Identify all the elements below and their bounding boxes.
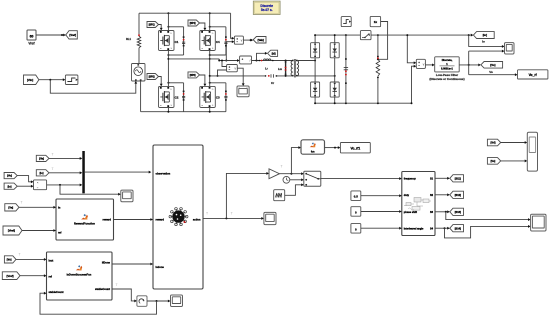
svg-text:Vo_rf: Vo_rf bbox=[529, 73, 538, 77]
svg-text:interleaved angle: interleaved angle bbox=[404, 227, 424, 230]
svg-text:[Va]: [Va] bbox=[8, 205, 13, 209]
svg-text:[S14]: [S14] bbox=[455, 227, 461, 230]
svg-text:fcn: fcn bbox=[311, 150, 315, 153]
svg-text:isdone: isdone bbox=[156, 265, 165, 269]
svg-text:(Discrete or Continuous): (Discrete or Continuous) bbox=[429, 77, 464, 81]
svg-text:[SP2]: [SP2] bbox=[149, 77, 155, 79]
svg-text:C4: C4 bbox=[216, 40, 220, 44]
svg-text:[S11]: [S11] bbox=[455, 177, 461, 180]
svg-text:[Id]: [Id] bbox=[272, 52, 276, 55]
svg-text:[Vo]: [Vo] bbox=[490, 63, 495, 67]
svg-text:[Vref]: [Vref] bbox=[8, 229, 15, 233]
svg-text:action: action bbox=[193, 217, 201, 221]
svg-text:Vref: Vref bbox=[28, 42, 35, 46]
svg-text:isDoneSuccessFcn: isDoneSuccessFcn bbox=[67, 273, 92, 277]
svg-text:IfDone: IfDone bbox=[102, 261, 111, 265]
svg-text:m: m bbox=[201, 105, 203, 107]
svg-text:Discrete,: Discrete, bbox=[442, 59, 453, 62]
svg-text:Cr: Cr bbox=[271, 81, 274, 85]
svg-text:5e-07 s.: 5e-07 s. bbox=[261, 8, 273, 12]
svg-text:T: T bbox=[206, 212, 208, 216]
svg-text:T: T bbox=[231, 212, 233, 216]
svg-text:T: T bbox=[20, 201, 22, 205]
svg-text:reward: reward bbox=[102, 218, 111, 222]
svg-text:ref: ref bbox=[58, 230, 61, 234]
svg-text:duty: duty bbox=[404, 194, 410, 197]
svg-text:stableCount: stableCount bbox=[49, 290, 64, 294]
svg-text:[Vrf]: [Vrf] bbox=[490, 142, 495, 145]
svg-text:[Vo]: [Vo] bbox=[7, 259, 12, 262]
svg-text:observation: observation bbox=[156, 172, 171, 176]
svg-text:inut: inut bbox=[49, 258, 54, 262]
svg-text:[SP1]: [SP1] bbox=[149, 25, 155, 27]
svg-text:reward: reward bbox=[156, 217, 165, 221]
svg-text:C2: C2 bbox=[175, 96, 179, 100]
svg-text:[Io]: [Io] bbox=[8, 185, 12, 188]
svg-text:[Vo]: [Vo] bbox=[491, 160, 496, 163]
svg-text:m: m bbox=[201, 48, 203, 50]
svg-text:[Vin]: [Vin] bbox=[27, 78, 33, 82]
svg-text:m: m bbox=[160, 105, 162, 107]
svg-text:T: T bbox=[51, 167, 53, 171]
svg-text:[SP3]: [SP3] bbox=[190, 75, 196, 77]
svg-text:m: m bbox=[160, 48, 162, 50]
svg-text:T: T bbox=[280, 165, 282, 169]
svg-text:T: T bbox=[115, 283, 117, 287]
svg-text:C1: C1 bbox=[175, 40, 179, 44]
svg-text:×: × bbox=[37, 181, 39, 185]
svg-text:C3: C3 bbox=[216, 96, 220, 100]
svg-text:[S12]: [S12] bbox=[455, 194, 461, 197]
svg-text:ref: ref bbox=[49, 274, 52, 278]
svg-text:[Vref]: [Vref] bbox=[69, 33, 76, 37]
svg-text:T: T bbox=[51, 153, 53, 157]
svg-text:frequency: frequency bbox=[404, 178, 417, 181]
svg-text:[SP4]: [SP4] bbox=[190, 22, 196, 25]
svg-text:[Io]: [Io] bbox=[40, 172, 44, 175]
svg-text:[Vo]: [Vo] bbox=[7, 175, 12, 178]
svg-text:Discrete: Discrete bbox=[260, 4, 273, 8]
svg-text:[Io]: [Io] bbox=[483, 33, 487, 37]
svg-text:Lr: Lr bbox=[265, 66, 268, 70]
svg-text:0.0001s+1: 0.0001s+1 bbox=[441, 67, 453, 70]
svg-text:[Vref]: [Vref] bbox=[6, 274, 13, 278]
svg-text:RL1: RL1 bbox=[126, 37, 132, 41]
svg-text:phase shift: phase shift bbox=[404, 211, 417, 214]
svg-text:1k: 1k bbox=[374, 20, 378, 24]
svg-text:0.5: 0.5 bbox=[354, 195, 358, 199]
svg-text:Vo_rf1: Vo_rf1 bbox=[350, 146, 360, 150]
svg-text:stableCount: stableCount bbox=[95, 287, 110, 291]
svg-text:60: 60 bbox=[30, 34, 34, 38]
svg-text:Vo: Vo bbox=[489, 70, 493, 74]
svg-text:Io: Io bbox=[482, 39, 485, 43]
svg-text:RewardFunction: RewardFunction bbox=[74, 222, 95, 226]
svg-text:T: T bbox=[18, 253, 20, 257]
svg-text:[Va]: [Va] bbox=[39, 158, 44, 161]
svg-text:[S13]: [S13] bbox=[455, 211, 461, 214]
svg-text:[Vab]: [Vab] bbox=[258, 39, 264, 42]
svg-text:Lm: Lm bbox=[278, 67, 283, 71]
